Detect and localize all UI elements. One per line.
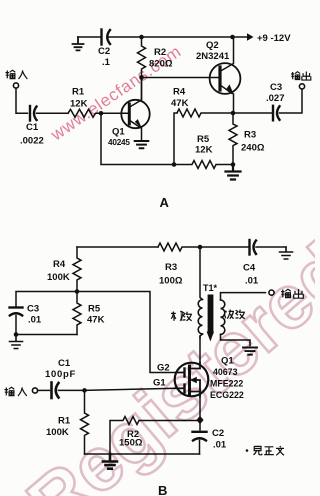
svg-text:C4: C4 xyxy=(243,263,256,274)
svg-text:.0022: .0022 xyxy=(20,136,44,147)
label 输出 B xyxy=(281,289,303,298)
top rail B xyxy=(77,246,158,248)
wire feedback down and right xyxy=(101,113,174,164)
capacitor C4 xyxy=(248,240,250,255)
resistor R5 xyxy=(174,161,233,169)
ground Q1 emitter xyxy=(135,141,149,148)
wire C1 to G1 xyxy=(59,389,85,391)
resistor R1 xyxy=(68,109,101,117)
svg-text:C1: C1 xyxy=(26,122,39,133)
node top rail Q2 collector xyxy=(230,35,235,40)
wire node right to G2 xyxy=(77,292,176,373)
svg-text:.01: .01 xyxy=(213,440,227,451)
wire to G1 xyxy=(85,388,177,390)
node Q1 base xyxy=(99,111,104,116)
wire C1 to R1 xyxy=(37,112,69,114)
wire top node down to primary xyxy=(200,247,203,300)
ground C3 xyxy=(10,335,23,349)
capacitor C2 xyxy=(100,30,102,45)
svg-text:.027: .027 xyxy=(266,93,285,104)
wire R4 vertical riser xyxy=(174,113,177,165)
wire R2 bottom down to Q1 collector xyxy=(141,78,143,100)
svg-text:100Ω: 100Ω xyxy=(159,276,183,287)
label 输入 B xyxy=(5,387,27,396)
capacitor C2 B xyxy=(199,420,201,430)
node R3 bottom xyxy=(231,162,236,167)
svg-text:R4: R4 xyxy=(53,259,66,270)
input terminal B xyxy=(32,388,37,393)
wire R2 bottom to Q2 base xyxy=(142,77,219,79)
resistor R2 xyxy=(138,37,146,78)
svg-text:C2: C2 xyxy=(212,428,224,439)
output terminal A xyxy=(299,84,304,89)
svg-text:100K: 100K xyxy=(47,272,70,283)
ground top-left xyxy=(73,37,84,50)
wire drain up to transformer xyxy=(199,336,201,363)
ground secondary xyxy=(243,348,257,355)
svg-text:100pF: 100pF xyxy=(45,369,76,380)
wire base node to Q1 xyxy=(101,112,128,114)
resistor R4 xyxy=(177,109,233,117)
node Q2 emitter xyxy=(231,111,236,116)
svg-text:R4: R4 xyxy=(173,87,186,98)
svg-text:+9 -12V: +9 -12V xyxy=(257,33,291,44)
transformer core xyxy=(208,295,214,335)
power arrow +9-12V xyxy=(233,36,248,38)
svg-text:R1: R1 xyxy=(58,416,71,427)
svg-text:40245: 40245 xyxy=(108,138,130,147)
resistor R3 B xyxy=(158,243,248,251)
svg-text:B: B xyxy=(158,483,167,496)
output terminal B xyxy=(269,290,274,295)
node top rail B xyxy=(198,245,203,250)
node R2 bottom xyxy=(139,75,144,80)
wire secondary bottom to ground xyxy=(221,334,251,345)
ground C4 right xyxy=(280,247,293,259)
ground R3 bottom xyxy=(226,165,241,180)
svg-text:.1: .1 xyxy=(102,57,111,68)
svg-text:T1*: T1* xyxy=(203,283,218,293)
svg-text:R3: R3 xyxy=(244,130,256,141)
capacitor C3 B xyxy=(10,306,23,308)
ground bottom rail xyxy=(103,454,117,469)
svg-text:Q1: Q1 xyxy=(112,127,125,138)
wire C3 to output xyxy=(280,89,303,113)
watermark registered outline xyxy=(12,227,320,496)
resistor R1 B xyxy=(81,390,89,454)
node C3 bottom xyxy=(14,332,19,337)
wire input down xyxy=(16,88,28,113)
svg-text:R1: R1 xyxy=(72,87,85,98)
capacitor C1 xyxy=(29,106,31,121)
transformer T1 primary coil xyxy=(198,300,202,334)
svg-text:C1: C1 xyxy=(58,358,71,369)
node top rail R2 xyxy=(139,35,144,40)
svg-text:47K: 47K xyxy=(171,98,189,109)
node bottom left xyxy=(172,162,177,167)
capacitor C3 xyxy=(272,106,274,121)
svg-text:2N3241: 2N3241 xyxy=(196,51,230,62)
transistor Q1 xyxy=(121,78,149,141)
wire top rail left segment xyxy=(78,36,101,38)
resistor R3 xyxy=(229,113,237,165)
label 初级 xyxy=(171,312,192,321)
transistor Q2 xyxy=(210,37,241,113)
svg-text:R5: R5 xyxy=(197,134,210,145)
resistor R2 B xyxy=(110,417,197,455)
label 次级 xyxy=(224,310,245,319)
resistor R4 B xyxy=(73,247,81,292)
capacitor C1 B xyxy=(50,383,53,399)
resistor R5 B xyxy=(73,292,81,335)
node source xyxy=(196,416,203,424)
svg-text:47K: 47K xyxy=(87,315,105,326)
svg-text:C3: C3 xyxy=(27,304,39,315)
label 见正文 note xyxy=(246,449,249,452)
label 输入 A xyxy=(6,70,28,79)
wire node left to C3 xyxy=(16,292,77,307)
wire top rail mid segment xyxy=(108,36,233,38)
wire C3 bottom to R5 bottom xyxy=(16,334,77,336)
wire emitter node to C3 xyxy=(233,112,272,114)
svg-text:A: A xyxy=(160,195,170,210)
svg-text:240Ω: 240Ω xyxy=(241,143,265,154)
node R4 bottom xyxy=(75,289,80,294)
wire source down to node xyxy=(199,397,201,421)
transformer secondary coil xyxy=(221,300,225,334)
svg-text:.01: .01 xyxy=(28,315,42,326)
watermark elecfans xyxy=(47,42,185,145)
node input junction xyxy=(82,388,87,393)
label 输出 A xyxy=(291,72,311,81)
svg-text:12K: 12K xyxy=(195,145,213,156)
wire secondary top to output xyxy=(221,293,266,300)
svg-text:Q2: Q2 xyxy=(206,40,219,51)
svg-text:R5: R5 xyxy=(88,304,101,315)
svg-text:C2: C2 xyxy=(98,46,110,57)
input terminal A xyxy=(13,83,18,88)
svg-text:R3: R3 xyxy=(165,262,177,273)
MOSFET Q1 B xyxy=(175,363,209,397)
svg-text:C3: C3 xyxy=(270,82,282,93)
wire primary bottom to drain xyxy=(200,334,203,338)
bottom rail B xyxy=(85,453,200,455)
